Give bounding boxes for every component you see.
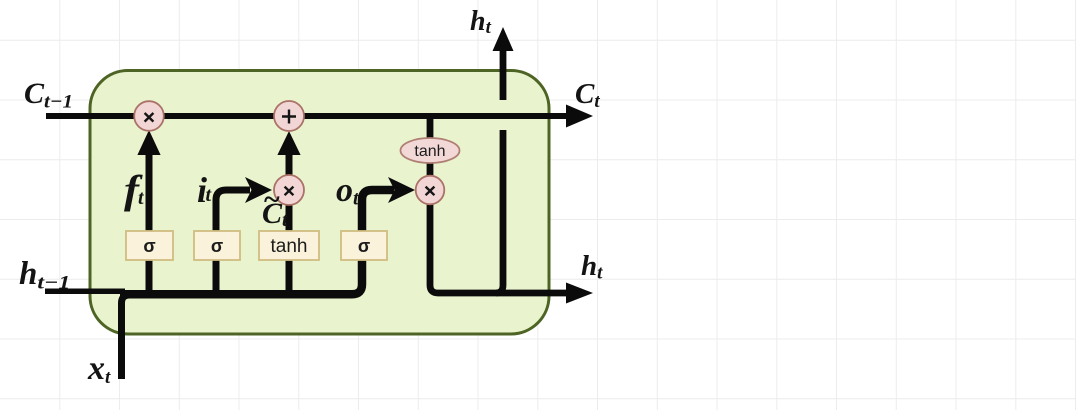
svg-text:σ: σ	[143, 236, 155, 256]
node: cell-state add	[274, 101, 304, 131]
arrowhead h_t top output	[493, 27, 514, 51]
node: candidate multiply	[274, 175, 304, 205]
wire: candidate multiply up to add node	[286, 153, 293, 176]
node: forget multiply	[134, 101, 164, 131]
gate box sigma (forget)	[126, 231, 173, 260]
gate box sigma (input)	[194, 231, 240, 260]
wire: h_t branch rising (below cell-state crossing)	[496, 130, 503, 293]
arrowhead into output multiply node	[388, 177, 415, 203]
svg-text:tanh: tanh	[271, 236, 308, 257]
wire: cell state line C_{t-1} -> C_t	[46, 113, 566, 119]
wire: hidden state line h_{t-1} (bottom, curves up into o gate)	[45, 289, 125, 295]
svg-text:ht: ht	[470, 6, 492, 38]
node: tanh ellipse	[401, 138, 460, 163]
svg-text:tanh: tanh	[414, 143, 445, 160]
arrowhead into candidate multiply node	[245, 177, 272, 203]
wire: x_t input rising into h line	[122, 295, 130, 379]
svg-text:ht−1: ht−1	[19, 256, 70, 294]
svg-text:~: ~	[263, 183, 280, 216]
svg-text:σ: σ	[358, 236, 370, 256]
wire: h_t branch rising (above cell-state crossing)	[500, 51, 507, 100]
arrowhead C_t output	[566, 105, 593, 128]
node: output multiply	[416, 176, 445, 205]
wire: input gate i curving to candidate multiply	[216, 190, 250, 297]
wire: forget gate vertical f	[146, 153, 153, 297]
LSTM cell body (rounded rectangle)	[90, 71, 549, 335]
gate box sigma (output)	[341, 231, 387, 260]
arrowhead into add node	[277, 131, 300, 155]
wire: candidate tanh vertical	[286, 205, 293, 297]
wire: tanh branch down from cell state	[427, 118, 434, 177]
svg-text:xt: xt	[87, 350, 111, 388]
svg-text:Ct−1: Ct−1	[24, 77, 73, 113]
arrowhead into forget multiply node	[137, 130, 160, 155]
svg-text:Ct: Ct	[575, 78, 600, 112]
wire: output path from multiply to h_t (bottom right)	[430, 204, 566, 293]
arrowhead h_t right output	[566, 283, 593, 304]
svg-text:σ: σ	[211, 236, 223, 256]
svg-text:ht: ht	[581, 250, 603, 284]
wire: hidden state main path (inside cell, curves up into o gate)	[120, 190, 394, 294]
gate box tanh (candidate)	[259, 231, 319, 260]
